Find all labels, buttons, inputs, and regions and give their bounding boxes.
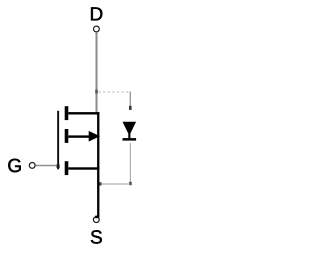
wire source end cap [95,216,98,219]
terminal pin S (open circle) [93,217,99,223]
MOSFET Q1 source line [68,167,99,169]
terminal label D [91,7,102,20]
wire gate lead [36,165,57,167]
body diode D1 cathode bar [123,138,137,141]
MOSFET Q1 body arrow head [89,131,100,142]
wire diode cathode to source [100,183,131,185]
MOSFET Q1 drain line [68,112,99,114]
node gate junction [57,164,60,168]
terminal pin G (open circle) [29,163,35,169]
terminal label S [91,230,102,243]
terminal pin D (open circle) [94,26,100,32]
MOSFET Q1 body line [68,135,89,137]
node diode cathode end [129,182,132,185]
node drain junction [95,90,98,94]
body diode D1 tip stem [128,134,130,139]
MOSFET Q1 bottom channel bar (source) [65,161,69,175]
terminal label G [8,159,20,172]
wire diode cathode lead [129,143,131,184]
node diode anode end [129,106,132,110]
MOSFET Q1 gate line [57,111,59,170]
wire diode anode lead [129,92,131,109]
node source junction [99,182,102,185]
body diode D1 triangle [123,122,137,136]
MOSFET Q1 middle channel bar (body) [65,129,69,143]
MOSFET Q1 top channel bar (drain) [65,106,69,120]
MOSFET Q1 right conductor (drain-source) [97,112,99,218]
wire dashed drain to diode anode [99,91,130,93]
wire drain lead [96,32,98,113]
